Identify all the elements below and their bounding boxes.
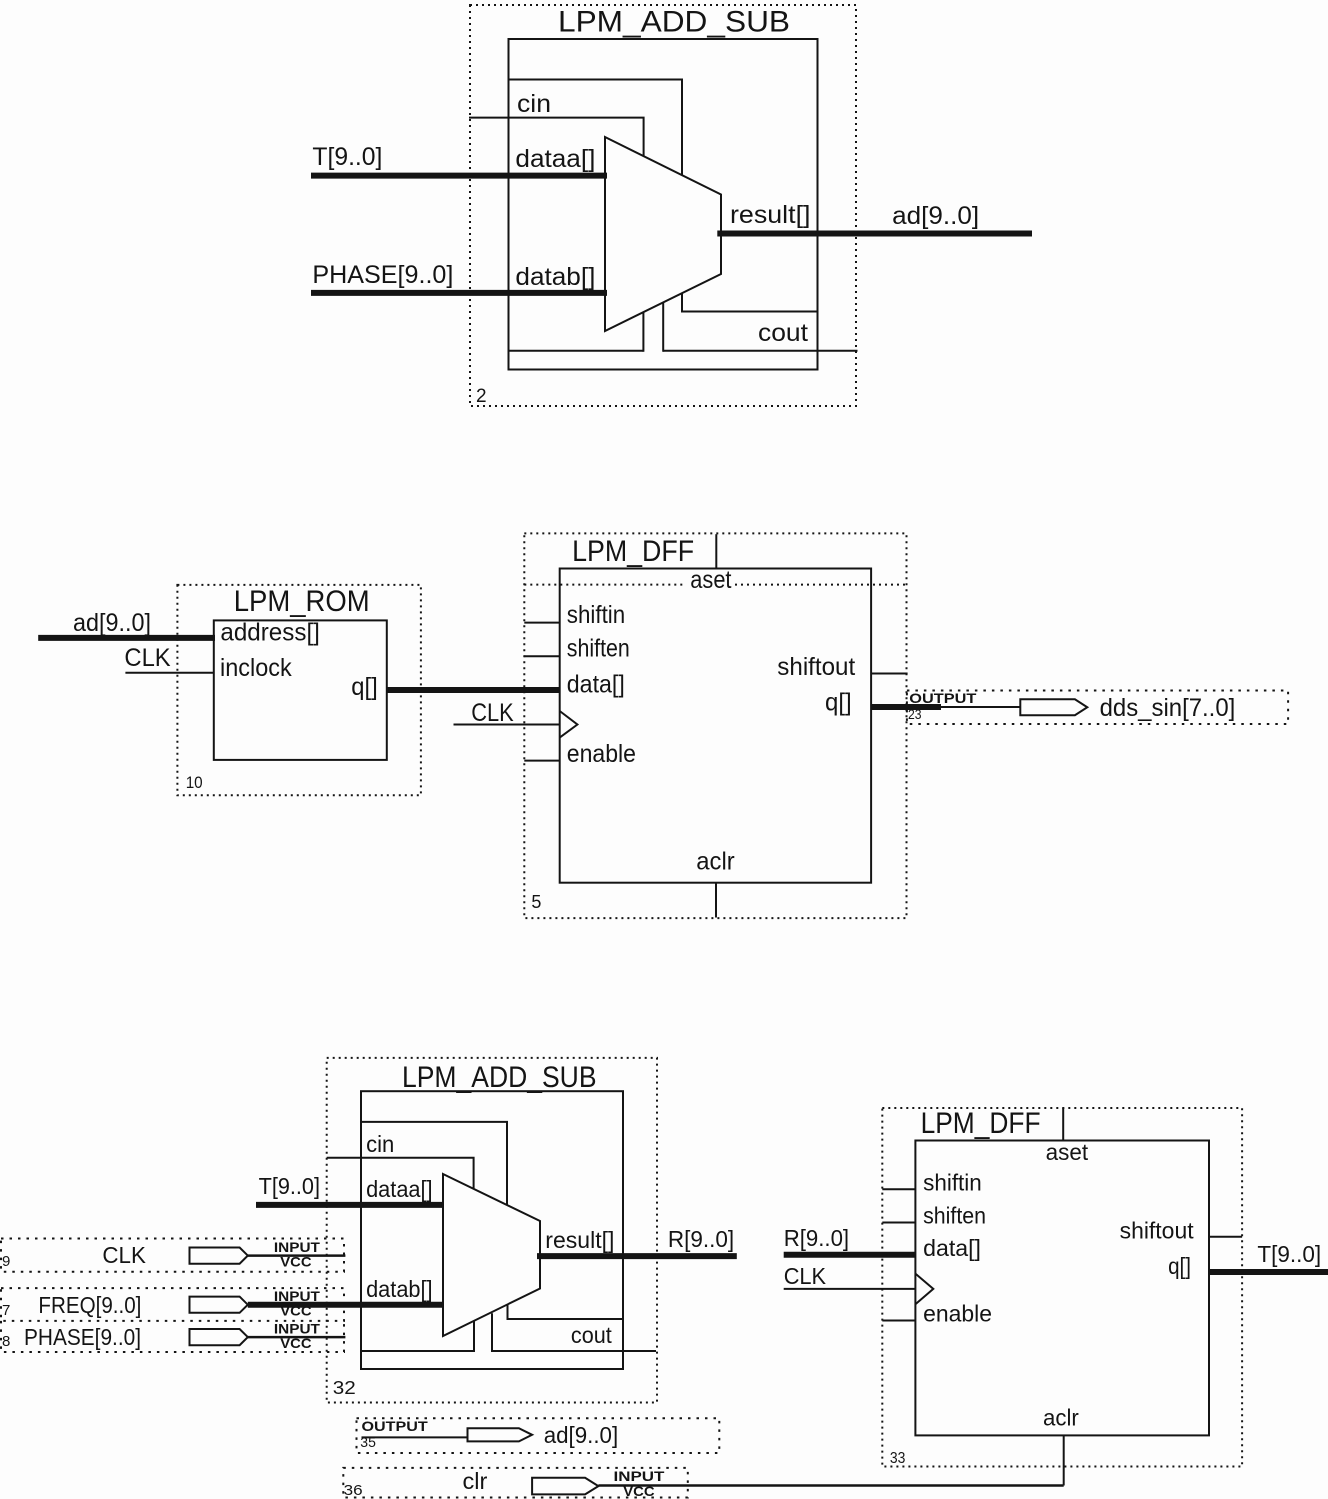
svg-text:enable: enable bbox=[923, 1301, 992, 1327]
wire cin (U2) bbox=[469, 118, 644, 157]
input pin symbol FREQ bbox=[190, 1297, 248, 1313]
svg-text:LPM_DFF: LPM_DFF bbox=[572, 535, 694, 568]
wire bus result R[9..0] from U32 bbox=[537, 1253, 737, 1259]
svg-text:ad[9..0]: ad[9..0] bbox=[544, 1422, 619, 1448]
svg-text:cout: cout bbox=[758, 319, 808, 347]
wire bus q[] out of U5 bbox=[871, 704, 941, 710]
output pin dds_sin dotted boundary bbox=[907, 691, 1288, 725]
svg-text:data[]: data[] bbox=[567, 671, 625, 699]
svg-text:q[]: q[] bbox=[1168, 1253, 1191, 1279]
svg-text:aset: aset bbox=[1046, 1139, 1089, 1165]
wire PHASE from input pin bbox=[248, 1336, 346, 1339]
svg-text:shiftin: shiftin bbox=[567, 601, 625, 629]
svg-text:cin: cin bbox=[517, 90, 551, 118]
svg-text:R[9..0]: R[9..0] bbox=[668, 1226, 734, 1252]
svg-text:LPM_ROM: LPM_ROM bbox=[234, 585, 370, 618]
svg-text:cout: cout bbox=[571, 1322, 612, 1348]
svg-text:ad[9..0]: ad[9..0] bbox=[892, 202, 979, 230]
ROM U10 body rectangle bbox=[214, 620, 387, 760]
wire CLK into ROM inclock bbox=[125, 672, 213, 674]
svg-text:shiftin: shiftin bbox=[923, 1170, 982, 1196]
wire aset stub (U33) bbox=[1062, 1108, 1064, 1141]
svg-text:datab[]: datab[] bbox=[366, 1276, 433, 1302]
wire bus ad[9..0] from U2 result bbox=[717, 231, 1032, 237]
svg-text:10: 10 bbox=[186, 773, 203, 792]
wire enable stub (U5) bbox=[524, 760, 559, 762]
svg-text:result[]: result[] bbox=[730, 201, 811, 229]
svg-text:aset: aset bbox=[690, 566, 731, 594]
wire aclr stub (U33) bbox=[1063, 1435, 1065, 1485]
wire shiftout stub (U5) bbox=[871, 673, 908, 675]
svg-text:LPM_DFF: LPM_DFF bbox=[921, 1107, 1041, 1140]
wire bus R[9..0] into U33 data bbox=[784, 1252, 916, 1258]
wire aset stub (U5) bbox=[715, 534, 717, 568]
wire aclr stub (U5) bbox=[715, 883, 717, 918]
svg-text:q[]: q[] bbox=[825, 689, 852, 717]
wire bus q[] out of U33 to T[9..0] bbox=[1209, 1269, 1328, 1275]
output pin symbol dds_sin bbox=[1020, 699, 1087, 715]
svg-text:data[]: data[] bbox=[923, 1235, 981, 1261]
adder U2 clock channel verticals bbox=[643, 303, 663, 352]
adder U2 body rectangle bbox=[509, 39, 818, 370]
DFF U5 body rectangle bbox=[560, 569, 871, 883]
adder U2 LPM_ADD_SUB dashed boundary bbox=[470, 5, 856, 406]
svg-text:LPM_ADD_SUB: LPM_ADD_SUB bbox=[402, 1061, 597, 1094]
svg-text:clr: clr bbox=[463, 1468, 488, 1494]
adder U32 trapezoid ALU shape bbox=[443, 1174, 540, 1336]
svg-text:inclock: inclock bbox=[220, 654, 292, 682]
input pin symbol clr bbox=[532, 1478, 598, 1495]
wire shiften stub (U5) bbox=[524, 655, 559, 657]
adder U2 bottom channel line and cout wire bbox=[509, 350, 858, 352]
svg-text:23: 23 bbox=[908, 706, 922, 722]
svg-text:LPM_ADD_SUB: LPM_ADD_SUB bbox=[558, 6, 790, 39]
input pin FREQ dotted boundary bbox=[1, 1288, 344, 1321]
svg-text:OUTPUT: OUTPUT bbox=[362, 1419, 429, 1434]
svg-text:T[9..0]: T[9..0] bbox=[1257, 1241, 1321, 1267]
adder U32 body rectangle bbox=[361, 1091, 623, 1369]
svg-text:result[]: result[] bbox=[545, 1227, 614, 1253]
svg-text:OUTPUT: OUTPUT bbox=[909, 691, 977, 706]
svg-text:INPUT: INPUT bbox=[274, 1322, 321, 1337]
svg-text:36: 36 bbox=[344, 1482, 363, 1499]
svg-text:aclr: aclr bbox=[696, 848, 734, 876]
svg-text:7: 7 bbox=[2, 1302, 10, 1319]
svg-text:PHASE[9..0]: PHASE[9..0] bbox=[24, 1324, 141, 1350]
adder U32 cin channel box bbox=[361, 1122, 507, 1205]
output pin ad[9..0] dotted boundary bbox=[357, 1418, 720, 1453]
DFF U5 inner dotted row line bbox=[524, 584, 906, 586]
svg-text:dds_sin[7..0]: dds_sin[7..0] bbox=[1100, 694, 1236, 722]
svg-text:dataa[]: dataa[] bbox=[366, 1176, 433, 1202]
svg-text:datab[]: datab[] bbox=[515, 263, 595, 291]
svg-text:R[9..0]: R[9..0] bbox=[784, 1225, 849, 1251]
wire cin (U32) bbox=[327, 1158, 474, 1189]
DFF U33 body rectangle bbox=[915, 1141, 1209, 1436]
svg-text:CLK: CLK bbox=[124, 644, 171, 672]
svg-text:enable: enable bbox=[567, 740, 636, 768]
DFF U5 LPM_DFF dashed boundary bbox=[524, 533, 906, 918]
ROM U10 LPM_ROM dashed boundary bbox=[177, 585, 421, 795]
wire CLK into U5 clock bbox=[454, 724, 560, 726]
wire bus PHASE[9..0] into U2 datab bbox=[311, 290, 607, 296]
wire shiftin stub (U5) bbox=[524, 622, 559, 624]
svg-text:CLK: CLK bbox=[471, 699, 514, 727]
wire bus FREQ[9..0] into U32 datab bbox=[248, 1302, 444, 1308]
svg-text:PHASE[9..0]: PHASE[9..0] bbox=[312, 261, 453, 289]
svg-text:address[]: address[] bbox=[220, 619, 320, 647]
DFF U33 clock triangle bbox=[915, 1274, 933, 1305]
svg-text:33: 33 bbox=[890, 1450, 906, 1467]
svg-text:shiftout: shiftout bbox=[1120, 1218, 1195, 1244]
input pin clr dotted boundary bbox=[343, 1468, 688, 1498]
svg-text:CLK: CLK bbox=[784, 1263, 827, 1289]
svg-text:cin: cin bbox=[366, 1131, 394, 1157]
wire shiftout stub (U33) bbox=[1209, 1236, 1242, 1238]
wire bus ad[9..0] into ROM address bbox=[38, 635, 215, 641]
DFF U5 clock triangle bbox=[560, 711, 578, 738]
svg-text:T[9..0]: T[9..0] bbox=[312, 143, 382, 171]
wire CLK into U33 clock bbox=[784, 1288, 916, 1290]
svg-text:INPUT: INPUT bbox=[614, 1469, 666, 1484]
svg-text:dataa[]: dataa[] bbox=[515, 145, 595, 173]
output pin symbol ad[9..0] bbox=[468, 1428, 533, 1441]
svg-text:q[]: q[] bbox=[351, 673, 378, 701]
svg-text:8: 8 bbox=[2, 1333, 10, 1350]
svg-text:shiften: shiften bbox=[923, 1203, 986, 1229]
DFF U33 LPM_DFF dashed boundary bbox=[882, 1108, 1242, 1467]
svg-text:T[9..0]: T[9..0] bbox=[259, 1173, 320, 1199]
adder U32 clock channel verticals bbox=[474, 1313, 492, 1352]
svg-text:aclr: aclr bbox=[1043, 1405, 1079, 1431]
input pin PHASE dotted boundary bbox=[1, 1321, 344, 1352]
svg-text:INPUT: INPUT bbox=[274, 1240, 321, 1255]
wire CLK from input pin bbox=[248, 1254, 346, 1257]
wire bus T[9..0] into U2 dataa bbox=[311, 173, 607, 179]
input pin symbol PHASE bbox=[190, 1329, 248, 1345]
svg-text:shiften: shiften bbox=[567, 635, 630, 663]
svg-text:FREQ[9..0]: FREQ[9..0] bbox=[38, 1292, 141, 1318]
adder U2 trapezoid ALU shape bbox=[605, 137, 721, 331]
wire bus T[9..0] into U32 dataa bbox=[256, 1202, 444, 1208]
wire bus q[] from ROM to DFF data bbox=[387, 687, 560, 693]
adder U32 bottom channel line and cout wire bbox=[361, 1350, 656, 1352]
input pin symbol CLK bbox=[190, 1248, 248, 1264]
svg-text:2: 2 bbox=[476, 386, 487, 407]
input pin CLK dotted boundary bbox=[1, 1239, 344, 1272]
wire from q[] bus to output symbol bbox=[941, 706, 1020, 708]
wire to output symbol ad[9..0] bbox=[362, 1436, 468, 1438]
adder U2 cout box bbox=[682, 293, 818, 311]
adder U2 cin channel box bbox=[509, 80, 683, 176]
svg-text:shiftout: shiftout bbox=[777, 653, 855, 681]
adder U32 LPM_ADD_SUB dashed boundary bbox=[327, 1058, 657, 1403]
wire enable stub (U33) bbox=[882, 1320, 915, 1322]
wire shiften stub (U33) bbox=[882, 1222, 915, 1224]
svg-text:9: 9 bbox=[2, 1253, 10, 1270]
svg-text:ad[9..0]: ad[9..0] bbox=[73, 609, 151, 637]
svg-text:32: 32 bbox=[333, 1378, 356, 1398]
svg-text:5: 5 bbox=[531, 892, 541, 912]
wire shiftin stub (U33) bbox=[882, 1188, 915, 1190]
wire clr to U33 aclr bbox=[598, 1484, 1063, 1487]
svg-text:CLK: CLK bbox=[102, 1242, 146, 1268]
adder U32 cout box bbox=[508, 1304, 624, 1319]
